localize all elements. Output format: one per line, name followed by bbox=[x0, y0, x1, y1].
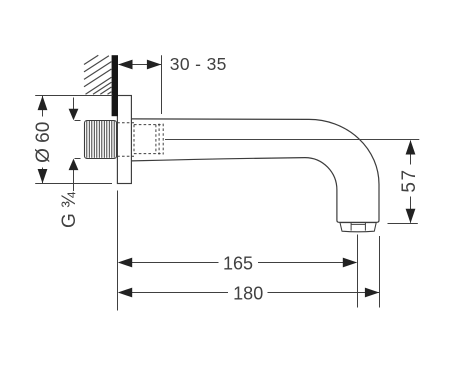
svg-text:180: 180 bbox=[233, 284, 263, 304]
svg-text:G ¾: G ¾ bbox=[59, 191, 80, 228]
svg-text:Ø 60: Ø 60 bbox=[33, 122, 54, 163]
svg-text:57: 57 bbox=[399, 168, 420, 192]
svg-text:30 - 35: 30 - 35 bbox=[170, 54, 227, 74]
svg-text:165: 165 bbox=[223, 253, 253, 273]
